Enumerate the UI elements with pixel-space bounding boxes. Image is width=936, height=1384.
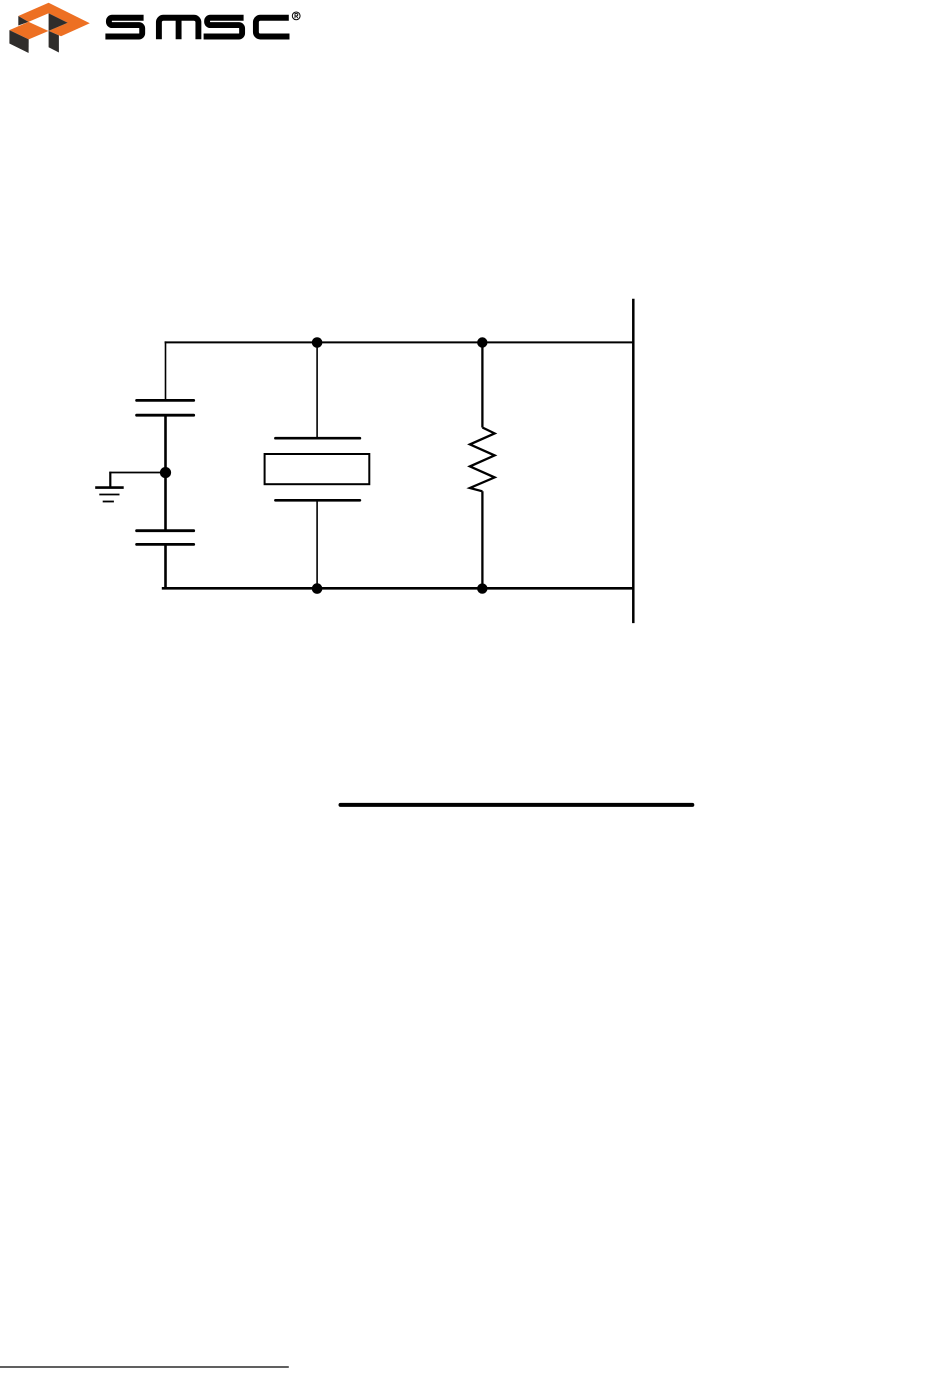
wire bottom bus [162,587,634,590]
SMSC logo mark right dark leg [49,31,59,53]
wire node to ground [109,472,165,474]
wire crystal bottom [316,500,318,588]
SMSC logo mark center dark triangle [49,13,68,31]
SMSC logo mark left dark wall [9,30,28,53]
SMSC logo mark left dark triangle [18,16,28,26]
SMSC logo mark orange chevron [18,3,90,37]
wire ground stem [109,472,111,488]
wire left branch upper [165,341,167,400]
node junction ground tap [160,467,171,478]
SMSC wordmark letter s2 [204,18,244,37]
crystal Y1 top plate [275,437,360,440]
node crystal bottom [312,583,323,594]
crystal Y1 bottom plate [275,499,360,502]
SMSC logo mark lower orange diamond [9,22,48,40]
footnote rule [0,1366,289,1368]
wire top bus [165,341,634,343]
chip edge line [632,299,635,623]
wire C2 to bottom bus [164,544,167,589]
wire C1 to node to C2 [164,415,167,531]
wire resistor bottom [481,491,483,588]
wire crystal top [316,343,318,439]
figure rule [341,803,693,807]
SMSC wordmark letter s [105,18,143,37]
node crystal top [312,337,323,348]
wire resistor top [481,343,483,428]
capacitor C2 [137,531,194,545]
crystal Y1 body [265,454,370,484]
SMSC wordmark letter c [256,18,290,37]
SMSC wordmark letter m [159,18,199,40]
node resistor top [477,337,487,347]
capacitor C1 [137,400,194,415]
resistor R1 [470,428,495,492]
node resistor bottom [477,583,487,593]
registered trademark symbol [292,12,300,20]
ground [95,488,124,502]
